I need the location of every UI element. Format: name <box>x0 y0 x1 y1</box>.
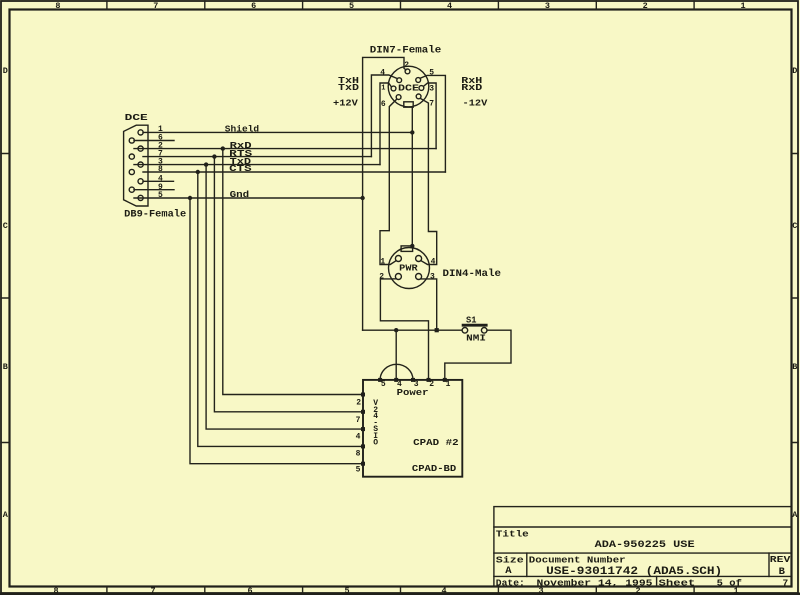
wire DIN7 shield stem to DIN4 notch <box>411 107 413 246</box>
svg-text:5 of: 5 of <box>717 578 743 589</box>
wire Shield net <box>143 131 412 133</box>
svg-text:CPAD #2: CPAD #2 <box>413 437 459 448</box>
junction at DIN4 notch <box>410 244 414 248</box>
svg-text:A: A <box>792 510 798 520</box>
svg-text:Size: Size <box>496 555 524 566</box>
svg-text:REV: REV <box>770 554 791 565</box>
wire Power pin4 riser <box>395 330 397 380</box>
DIN7 pin 7 <box>416 94 421 99</box>
svg-text:5: 5 <box>381 380 386 389</box>
DIN4 pin 2 <box>395 274 401 280</box>
DB9 pin 7 <box>129 154 134 159</box>
junction RTS tap <box>212 154 216 158</box>
junction RxD tap <box>221 146 225 150</box>
border ticks top <box>107 1 694 10</box>
DIN7 pin 1 <box>391 86 396 91</box>
svg-text:3: 3 <box>545 1 550 11</box>
svg-text:7: 7 <box>356 416 361 425</box>
wire DIN4 pin2 to Power pin2 <box>380 279 428 380</box>
svg-text:6: 6 <box>381 100 386 109</box>
wire CTS net <box>143 171 445 173</box>
svg-text:November 14, 1995: November 14, 1995 <box>537 578 653 589</box>
wire DIN7 pin2 to Gnd/Power stem <box>363 57 406 330</box>
Power pin numbers <box>381 380 451 389</box>
svg-text:B: B <box>779 566 786 578</box>
svg-text:RxD: RxD <box>461 83 483 93</box>
wire stub DB9 pin 4 <box>143 180 174 182</box>
svg-text:B: B <box>3 362 8 372</box>
DIN7 pin 4 <box>397 78 402 83</box>
svg-text:3: 3 <box>429 85 434 94</box>
wire RxD net <box>134 148 436 150</box>
DB9 pin 4 <box>138 179 143 184</box>
svg-text:8: 8 <box>356 450 361 459</box>
svg-text:4: 4 <box>397 380 402 389</box>
svg-text:7: 7 <box>150 586 155 595</box>
junction Shield to DIN7 shield stem <box>410 130 414 134</box>
wire RTS net <box>143 156 371 158</box>
DIN4 pin 3 <box>416 274 422 280</box>
svg-text:1: 1 <box>741 1 746 11</box>
svg-text:3: 3 <box>414 380 419 389</box>
Power pin squares top <box>378 378 447 382</box>
svg-text:7: 7 <box>429 100 434 109</box>
CPAD left pin squares <box>361 393 365 466</box>
svg-text:6: 6 <box>247 586 252 595</box>
svg-text:A: A <box>3 510 9 520</box>
svg-text:DCE: DCE <box>125 113 149 123</box>
junction DIN4 pin3 to NMI net <box>435 328 439 332</box>
svg-text:DCE: DCE <box>398 84 420 94</box>
svg-text:Sheet: Sheet <box>659 578 696 589</box>
svg-text:PWR: PWR <box>399 264 418 274</box>
DB9 pin numbers <box>158 125 163 200</box>
svg-text:4: 4 <box>447 1 452 11</box>
border ticks sides <box>1 154 798 443</box>
wire DIN7 pin7 to DIN4 pin4 (-12V) <box>420 98 436 264</box>
svg-text:Date:: Date: <box>496 578 525 589</box>
junction TxD tap <box>204 162 208 166</box>
svg-text:4: 4 <box>356 433 361 442</box>
connector DIN4-Male outline <box>389 248 430 289</box>
wire DIN7 pin5 to CTS <box>420 75 445 172</box>
svg-text:8: 8 <box>158 165 163 174</box>
junction Gnd tap <box>188 196 192 200</box>
svg-text:A: A <box>505 565 512 577</box>
junction Gnd to DIN7 pin2 stem <box>360 196 364 200</box>
connector DB9-Female shell <box>124 125 148 206</box>
wire DIN7 pin6 to DIN4 pin1 (+12V) <box>380 99 397 265</box>
svg-text:TxD: TxD <box>338 83 360 93</box>
svg-text:Shield: Shield <box>225 125 259 135</box>
wire Gnd drop to CPAD pin5 <box>190 198 363 464</box>
svg-text:5: 5 <box>344 586 349 595</box>
svg-text:DIN4-Male: DIN4-Male <box>443 268 502 280</box>
svg-text:+12V: +12V <box>333 99 358 109</box>
svg-text:D: D <box>792 66 797 76</box>
wire Gnd net <box>134 197 363 199</box>
svg-text:1: 1 <box>380 257 385 266</box>
wire DIN7 pin1 to TxD <box>380 83 391 165</box>
DB9 pin 5 <box>138 195 143 200</box>
svg-text:C: C <box>792 221 797 231</box>
svg-text:D: D <box>3 66 8 76</box>
label V24-SIO vertical <box>373 399 378 448</box>
DIN4 pin 1 <box>395 256 401 262</box>
DB9 pin 9 <box>129 187 134 192</box>
svg-text:7: 7 <box>783 578 789 589</box>
wire Power/NMI horizontal net <box>363 329 462 331</box>
svg-text:ADA-950225 USE: ADA-950225 USE <box>595 539 695 551</box>
svg-text:8: 8 <box>53 586 58 595</box>
border zone numbers top <box>55 1 745 11</box>
svg-text:B: B <box>792 362 797 372</box>
svg-text:6: 6 <box>251 1 256 11</box>
wire TxD net <box>134 164 380 166</box>
svg-text:O: O <box>373 439 378 448</box>
svg-text:Title: Title <box>496 529 529 540</box>
svg-text:DB9-Female: DB9-Female <box>124 209 186 221</box>
svg-text:4: 4 <box>380 68 385 77</box>
DIN7 pin 5 <box>416 78 421 83</box>
wire DIN4 pin3 to NMI net <box>421 279 437 330</box>
DIN7 notch <box>404 102 413 107</box>
wire DIN7 pin3 to RxD <box>424 83 437 149</box>
svg-text:S1: S1 <box>466 316 477 326</box>
DIN7 pin 6 <box>396 95 401 100</box>
svg-text:1: 1 <box>446 380 451 389</box>
wire RTS drop to CPAD pin7 <box>214 157 363 412</box>
junction CTS tap <box>196 170 200 174</box>
svg-text:C: C <box>3 221 8 231</box>
svg-text:5: 5 <box>356 466 361 475</box>
svg-text:2: 2 <box>356 399 361 408</box>
wire NMI to Power pin1 loop <box>445 330 511 380</box>
svg-text:8: 8 <box>55 1 60 11</box>
border zone letters right <box>792 66 798 520</box>
svg-text:CTS: CTS <box>229 164 252 174</box>
junction Power pin4 <box>394 328 398 332</box>
wire TxD drop to CPAD pin4 <box>206 165 363 430</box>
title block outline <box>494 507 792 587</box>
svg-text:USE-93011742 (ADA5.SCH): USE-93011742 (ADA5.SCH) <box>546 566 722 578</box>
DIN4 pin 4 <box>416 256 422 262</box>
connector DIN7-Female outline <box>388 66 429 107</box>
DIN7 pin 3 <box>419 86 424 91</box>
border zone letters left <box>3 66 9 520</box>
svg-text:4: 4 <box>431 257 436 266</box>
arc over Power pins 5-3 <box>380 364 413 380</box>
DB9 pin 6 <box>129 138 134 143</box>
switch S1 pushbutton NMI <box>462 325 488 333</box>
DIN4 notch <box>401 246 413 252</box>
svg-text:7: 7 <box>153 1 158 11</box>
DB9 pin 3 <box>138 162 143 167</box>
svg-text:5: 5 <box>349 1 354 11</box>
svg-text:CPAD-BD: CPAD-BD <box>412 463 457 474</box>
DIN7 pin 2 <box>405 69 410 74</box>
svg-text:DIN7-Female: DIN7-Female <box>370 44 441 56</box>
DB9 pin 2 <box>138 146 143 151</box>
wire DIN7 pin4 to RTS <box>371 75 397 157</box>
svg-text:3: 3 <box>430 273 435 282</box>
DB9 pin 1 <box>138 130 143 135</box>
wire RxD drop to CPAD pin2 <box>223 149 363 395</box>
svg-text:2: 2 <box>429 380 434 389</box>
svg-text:1: 1 <box>381 84 385 92</box>
wire stub DB9 pin 9 <box>134 189 174 191</box>
svg-text:2: 2 <box>643 1 648 11</box>
svg-text:4: 4 <box>441 586 446 595</box>
svg-text:Document Number: Document Number <box>529 555 626 566</box>
svg-text:Gnd: Gnd <box>230 190 250 200</box>
wire CTS drop to CPAD pin8 <box>198 172 363 446</box>
svg-text:-12V: -12V <box>463 99 488 109</box>
border ticks bottom <box>107 587 694 593</box>
CPAD board box <box>363 380 462 477</box>
DB9 pin 8 <box>129 169 134 174</box>
CPAD left pin numbers <box>356 399 362 475</box>
border zone numbers bottom <box>53 586 738 595</box>
wire stub DB9 pin 6 <box>134 140 174 142</box>
svg-text:NMI: NMI <box>466 334 486 344</box>
